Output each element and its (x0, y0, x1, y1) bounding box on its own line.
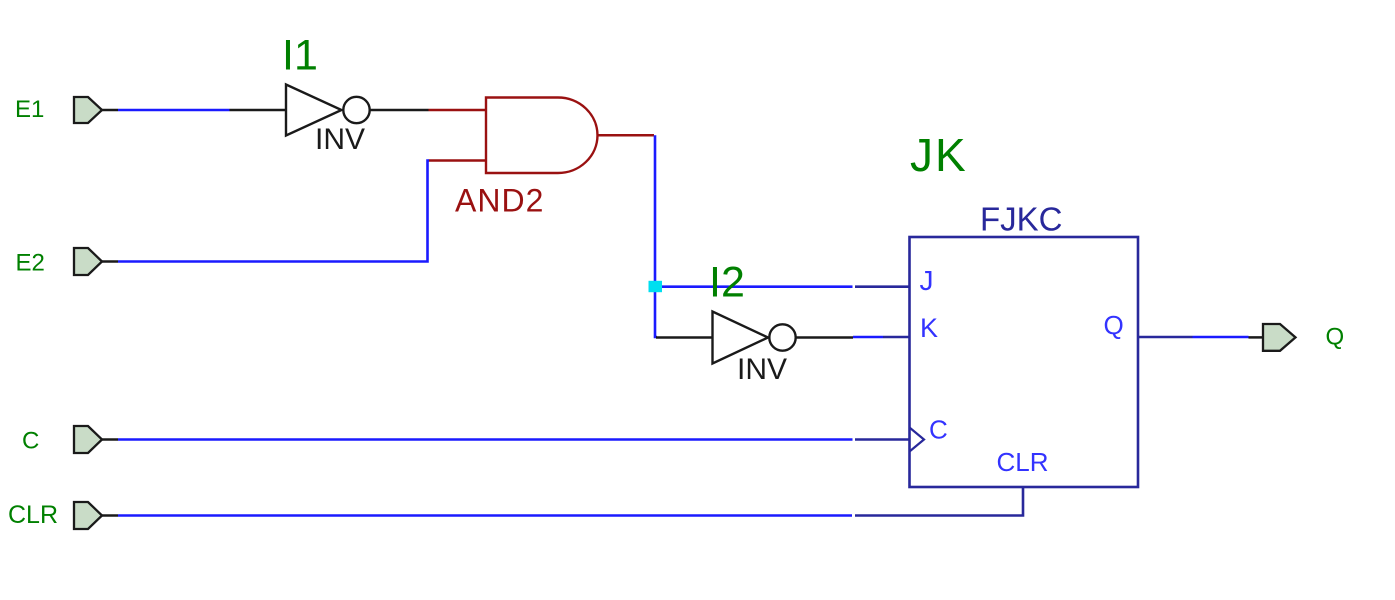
input port C (74, 426, 118, 453)
inverter I2 (INV) (656, 312, 853, 387)
output port Q lead (black) (1249, 336, 1264, 339)
pin C clock wedge (910, 428, 925, 452)
svg-text:CLR: CLR (8, 501, 58, 529)
flip-flop FJKC body (910, 237, 1139, 487)
and-gate AND2 body (455, 98, 597, 219)
pin K lead (883, 336, 910, 339)
svg-text:INV: INV (315, 123, 365, 156)
svg-text:E2: E2 (16, 250, 45, 277)
svg-text:Q: Q (1104, 310, 1124, 340)
svg-text:I2: I2 (709, 259, 745, 307)
svg-text:C: C (929, 415, 948, 445)
svg-text:CLR: CLR (997, 447, 1049, 477)
wire net E2 (blue, horizontal then up to AND input B) (118, 161, 429, 262)
svg-text:INV: INV (737, 353, 787, 386)
and-gate AND2 output lead (dark red) (598, 134, 655, 137)
wire net I2 out to K (blue) (853, 336, 883, 339)
wire inverter I1 input lead (black) (230, 109, 287, 112)
pin C lead (855, 438, 910, 441)
svg-text:J: J (920, 265, 934, 296)
wire net E1 (blue) (118, 109, 230, 112)
output port Q (1263, 324, 1296, 351)
wire net to J input (blue) (655, 285, 853, 288)
wire net Q output (blue) (1193, 336, 1249, 339)
wire net C (blue) (118, 438, 853, 441)
svg-text:AND2: AND2 (455, 183, 544, 219)
wire net AND output (blue, down then splits) (655, 135, 657, 337)
svg-text:Q: Q (1326, 324, 1345, 351)
svg-text:E1: E1 (15, 96, 44, 123)
svg-text:FJKC: FJKC (980, 201, 1063, 238)
inverter I1 (INV) (286, 85, 429, 157)
pin Q lead (1138, 336, 1193, 339)
pin CLR lead (L-shape) (855, 487, 1023, 516)
and-gate AND2 input lead B (dark red) (429, 159, 487, 162)
and-gate AND2 input lead A (dark red) (429, 109, 487, 112)
pin J lead (855, 285, 910, 288)
junction node (cyan) (649, 281, 663, 292)
wire net CLR (blue) (118, 514, 852, 517)
svg-text:I1: I1 (282, 32, 318, 80)
svg-text:JK: JK (910, 129, 968, 181)
input port CLR (74, 502, 118, 529)
input port E2 (74, 248, 118, 275)
input port E1 (74, 97, 118, 123)
svg-text:C: C (22, 428, 39, 455)
svg-text:K: K (920, 313, 938, 343)
